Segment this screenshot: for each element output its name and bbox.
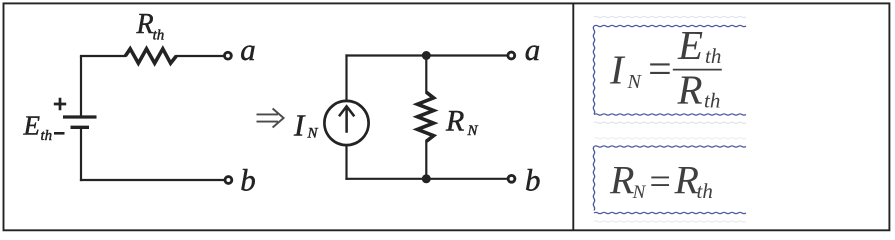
wire: Norton left vertical above source (345, 54, 347, 101)
svg-text:E: E (677, 22, 703, 68)
svg-text:b: b (525, 162, 541, 197)
wire: Thevenin bottom-left vertical (80, 127, 82, 181)
column divider (572, 3, 574, 230)
svg-text:R: R (445, 105, 464, 138)
formula box 1 wavy border bottom (594, 114, 746, 115)
svg-text:R: R (136, 9, 154, 40)
formula box 1 wavy border left (593, 26, 594, 114)
battery E_th: long plate (63, 115, 97, 118)
svg-text:N: N (307, 126, 319, 142)
formula box 1 wavy border top (594, 25, 746, 26)
wire: Norton bottom rail (345, 178, 508, 180)
wire: R_N branch lower (425, 140, 427, 179)
implies arrow (257, 109, 284, 128)
svg-text:th: th (704, 89, 720, 113)
terminal a (Norton) (508, 52, 515, 59)
svg-text:R: R (609, 158, 634, 203)
svg-text:R: R (677, 66, 703, 112)
svg-text:a: a (525, 32, 541, 67)
wire: R_N branch upper (425, 56, 427, 94)
wire: Thevenin top-left vertical (80, 56, 82, 116)
wire: Thevenin bottom horizontal (80, 179, 225, 181)
wire: Thevenin top horizontal right of resistor (175, 55, 224, 57)
svg-text:N: N (627, 71, 643, 93)
svg-text:th: th (41, 128, 53, 144)
formula box 2 ghost wave below bottom (594, 221, 746, 222)
resistor R_N zigzag (417, 92, 433, 141)
battery E_th: minus sign (54, 132, 65, 135)
terminal b (Norton) (508, 175, 515, 182)
fraction bar (673, 69, 722, 71)
battery E_th: short plate (71, 126, 90, 129)
junction node top (422, 51, 431, 60)
wire: Thevenin top horizontal left of resistor (80, 55, 126, 57)
wire: Norton top rail (345, 54, 507, 56)
terminal a (Thevenin) (225, 52, 232, 59)
formula box 1 ghost wave below bottom (594, 122, 746, 123)
current source arrow (339, 106, 354, 133)
svg-text:b: b (240, 162, 256, 197)
svg-text:N: N (467, 123, 479, 139)
formula box 2 wavy border bottom (594, 212, 746, 213)
formula box 2 wavy border left (593, 147, 594, 211)
svg-text:N: N (632, 182, 647, 203)
formula box 1 ghost wave above top (594, 16, 746, 17)
formula box 2 ghost wave above top (594, 138, 746, 139)
svg-text:=: = (645, 47, 673, 93)
battery E_th: plus sign (54, 98, 66, 110)
svg-text:E: E (23, 111, 41, 141)
formula box 2 wavy border top (594, 146, 746, 147)
current source I_N circle (324, 101, 368, 145)
resistor R_th zigzag (125, 49, 176, 63)
svg-text:th: th (153, 28, 165, 44)
junction node bottom (422, 174, 431, 183)
svg-text:I: I (293, 107, 306, 142)
svg-text:th: th (697, 179, 713, 203)
svg-text:R: R (674, 158, 699, 203)
wire: Norton left vertical below source (345, 145, 347, 180)
svg-text:I: I (609, 47, 626, 93)
terminal b (Thevenin) (225, 177, 232, 184)
svg-text:=: = (647, 161, 673, 203)
svg-text:th: th (705, 44, 721, 68)
svg-text:a: a (240, 32, 256, 67)
